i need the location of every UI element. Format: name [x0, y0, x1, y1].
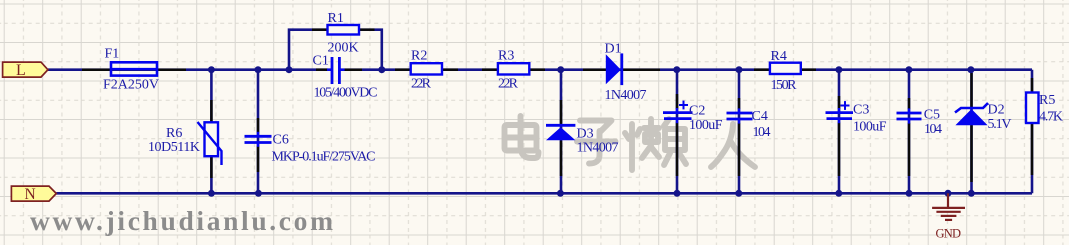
svg-text:GND: GND [936, 227, 962, 241]
svg-text:104: 104 [753, 125, 771, 140]
svg-text:N: N [25, 186, 36, 203]
svg-text:R3: R3 [498, 48, 514, 63]
svg-text:200K: 200K [328, 41, 359, 56]
svg-text:104: 104 [924, 122, 942, 137]
svg-text:R5: R5 [1039, 93, 1055, 108]
svg-text:105/400VDC: 105/400VDC [314, 86, 378, 101]
svg-text:C3: C3 [853, 103, 869, 118]
svg-text:C4: C4 [752, 109, 768, 124]
svg-text:R6: R6 [166, 126, 182, 141]
svg-text:F2A250V: F2A250V [103, 78, 159, 93]
svg-text:C5: C5 [924, 108, 940, 123]
svg-text:5.1V: 5.1V [988, 117, 1012, 132]
svg-text:F1: F1 [105, 47, 120, 62]
svg-text:10D511K: 10D511K [148, 140, 200, 155]
svg-text:4.7K: 4.7K [1039, 109, 1063, 124]
svg-text:22R: 22R [498, 77, 519, 92]
svg-text:22R: 22R [411, 77, 432, 92]
svg-text:C6: C6 [273, 133, 289, 148]
svg-text:L: L [16, 62, 26, 79]
svg-text:R1: R1 [328, 11, 344, 26]
svg-text:D1: D1 [605, 41, 622, 56]
svg-text:www.jichudianlu.com: www.jichudianlu.com [30, 205, 333, 236]
svg-text:C1: C1 [313, 53, 329, 68]
svg-text:R2: R2 [411, 48, 427, 63]
svg-text:100uF: 100uF [853, 120, 887, 135]
svg-text:1N4007: 1N4007 [605, 88, 647, 103]
svg-text:150R: 150R [771, 78, 798, 93]
svg-text:100uF: 100uF [689, 118, 723, 133]
svg-text:D2: D2 [988, 103, 1005, 118]
svg-text:R4: R4 [771, 49, 787, 64]
svg-text:MKP-0.1uF/275VAC: MKP-0.1uF/275VAC [272, 150, 376, 165]
svg-text:C2: C2 [689, 104, 705, 119]
svg-text:D3: D3 [577, 127, 594, 142]
svg-text:1N4007: 1N4007 [577, 141, 619, 156]
